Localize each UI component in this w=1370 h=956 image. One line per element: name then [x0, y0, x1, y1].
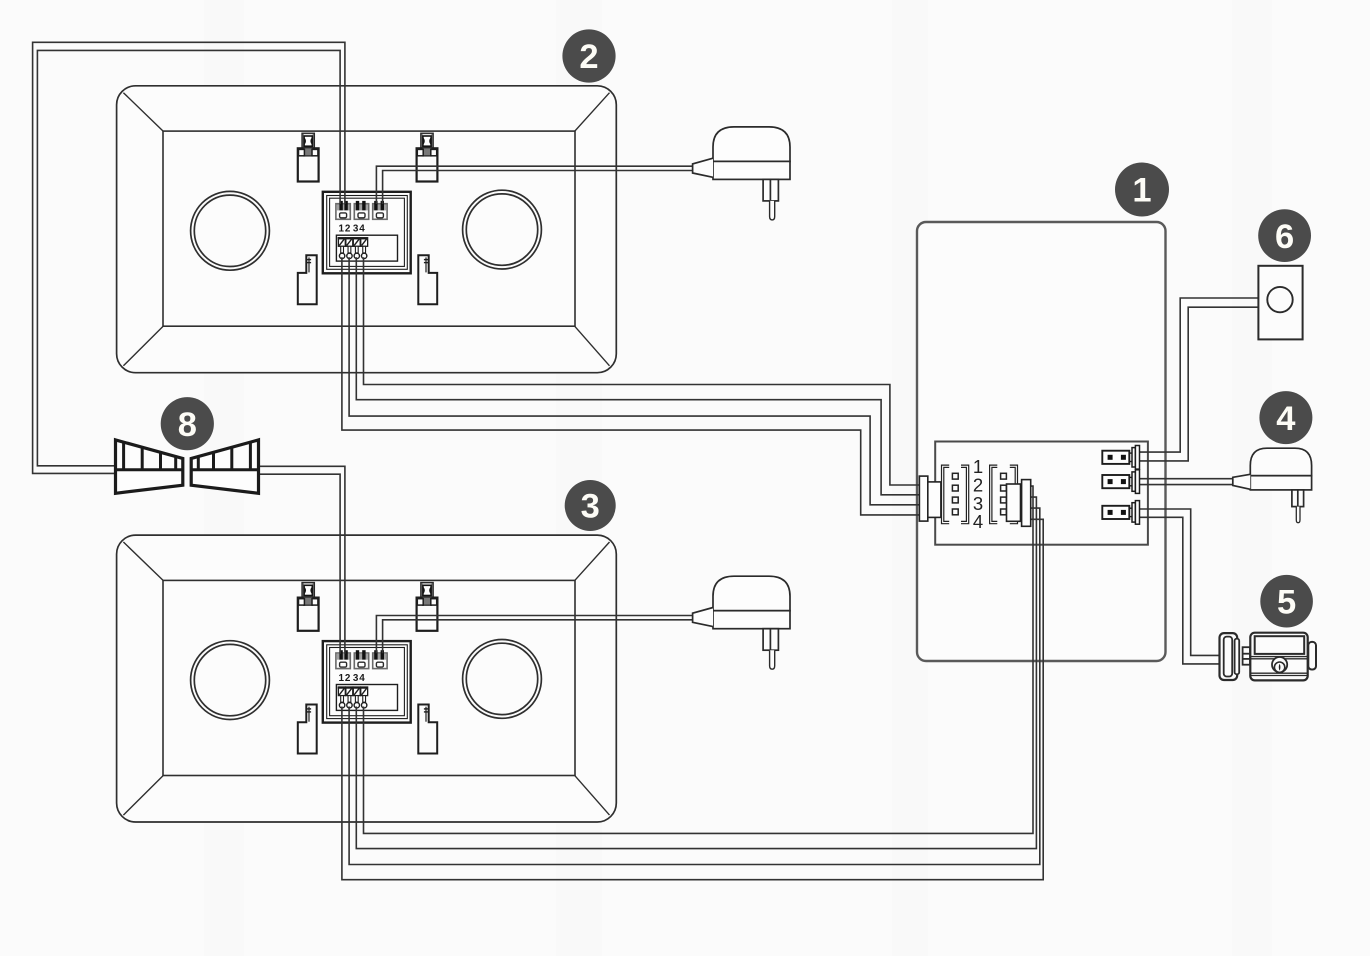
monitor 3: power adapter body — [693, 576, 790, 669]
monitor 2: socket 3 — [373, 201, 387, 219]
monitor 2: right speaker circle — [463, 190, 542, 269]
svg-text:3: 3 — [581, 488, 600, 526]
connector J2 pins — [1001, 473, 1007, 515]
door station terminal panel — [935, 442, 1148, 545]
monitor 3: screw terminal 2 — [345, 687, 353, 708]
monitor 3: terminal strip — [336, 685, 397, 711]
wire: door station to adapter 4 — [1140, 479, 1233, 485]
monitor 2: wire socket3 to adapter — [376, 166, 692, 204]
connector J1 plug flange — [919, 476, 927, 521]
wire: monitor3 terminal 2 to door station — [349, 508, 1040, 864]
wire: monitor2 terminal 3 to door station — [356, 257, 920, 495]
monitor 2: mounting keyhole bottom-right — [418, 255, 437, 304]
item badge 2 — [562, 29, 615, 82]
monitor 2: screw terminal 1 — [338, 237, 346, 258]
monitor 3: socket 2 — [354, 650, 368, 668]
monitor 3: socket 3 — [373, 650, 387, 668]
monitor 2: inner panel — [163, 131, 575, 326]
monitor 3: inner panel — [163, 580, 575, 775]
monitor 3: mounting keyhole top-left — [298, 583, 319, 631]
monitor 2: mounting keyhole bottom-left — [298, 255, 317, 304]
wire: door station to electric lock (lower) — [1140, 517, 1221, 664]
svg-text:5: 5 — [1277, 583, 1296, 621]
connector J2 right bracket — [1010, 465, 1018, 524]
monitor 2: connector block body — [323, 192, 411, 273]
connector J2 plug flange — [1022, 480, 1031, 527]
monitor 2: mounting keyhole top-left — [298, 133, 319, 181]
svg-text:4: 4 — [359, 224, 365, 235]
splitter item 8 left half — [116, 440, 183, 493]
splitter item 8 right half — [191, 440, 258, 493]
wire: door station to doorbell button (lower) — [1140, 307, 1259, 461]
monitor 3: left speaker circle — [191, 641, 270, 720]
monitor 2: adapter plug — [763, 179, 778, 201]
monitor 2: frame bevel corners — [123, 93, 609, 366]
electric lock item 5 link block — [1243, 647, 1250, 665]
monitor 3: mounting keyhole top-right — [417, 583, 438, 631]
wire: splitter to monitor3 socket1 (outer) — [259, 466, 345, 654]
monitor 2: label 1 2 3 4 — [338, 224, 365, 235]
connector J1 plug body — [928, 482, 941, 518]
wire: monitor2 socket1 loop to splitter (outer) — [33, 42, 345, 473]
monitor 2: terminal strip — [336, 235, 397, 261]
labels 1-4 of door station terminals — [973, 456, 983, 532]
2-pin connector top — [1102, 446, 1139, 470]
svg-text:4: 4 — [973, 511, 983, 532]
connector J1 pins — [952, 473, 958, 515]
connector J2 left bracket — [990, 465, 998, 524]
wire: door station to electric lock (upper) — [1140, 509, 1221, 655]
monitor 2: screw terminal 3 — [353, 237, 361, 258]
svg-text:2: 2 — [345, 224, 351, 235]
svg-text:3: 3 — [353, 224, 359, 235]
svg-text:6: 6 — [1275, 218, 1294, 256]
item badge 6 — [1258, 209, 1311, 262]
svg-text:4: 4 — [359, 673, 365, 684]
svg-text:1: 1 — [1132, 172, 1151, 210]
svg-text:8: 8 — [178, 406, 197, 444]
monitor 2: adapter pin — [770, 201, 775, 220]
monitor 3: connector block body — [323, 641, 411, 723]
wire: door station to doorbell button (upper) — [1140, 298, 1259, 452]
power adapter item 4 — [1233, 448, 1312, 523]
wire: monitor3 terminal 3 to door station — [356, 497, 1036, 848]
svg-text:3: 3 — [353, 673, 359, 684]
wire: monitor3 terminal 4 to door station — [364, 486, 1034, 833]
monitor 2: wall frame — [117, 86, 617, 373]
connector J2 plug body — [1007, 484, 1021, 521]
2-pin connector bottom — [1102, 501, 1139, 525]
monitor 2: screw terminal 4 — [360, 237, 368, 258]
monitor 2: adapter cable strain relief — [693, 158, 713, 177]
monitor 3: adapter pin — [770, 650, 775, 669]
monitor 2: power adapter body — [693, 127, 790, 220]
item badge 1 — [1115, 163, 1169, 217]
connector J1 left bracket — [942, 465, 950, 524]
item badge 3 — [565, 480, 616, 531]
monitor 3: mounting keyhole bottom-left — [298, 705, 317, 754]
monitor 3: frame bevel corners — [123, 542, 609, 815]
item badge 4 — [1259, 391, 1312, 444]
monitor 2: socket 2 — [354, 201, 368, 219]
electric lock item 5 strike plate — [1220, 633, 1240, 680]
monitor 3: adapter plug — [763, 629, 778, 651]
wire: monitor2 socket1 loop to splitter (inner) — [37, 50, 340, 465]
svg-text:1: 1 — [338, 673, 344, 684]
door station box U1 — [917, 222, 1166, 661]
monitor 3: adapter cable strain relief — [693, 608, 713, 627]
monitor 3: mounting keyhole bottom-right — [418, 705, 437, 754]
wire: monitor2 terminal 4 to door station — [364, 257, 921, 485]
wire: splitter to monitor3 socket1 (inner) — [259, 474, 340, 654]
2-pin connector middle — [1102, 470, 1139, 494]
monitor 3: right speaker circle — [463, 640, 542, 719]
svg-text:2: 2 — [345, 673, 351, 684]
svg-text:2: 2 — [579, 38, 598, 76]
monitor 2: socket 1 — [336, 201, 350, 219]
electric lock item 5 body — [1250, 633, 1316, 681]
wire: monitor2 terminal 1 to door station — [342, 257, 921, 515]
monitor 3: socket 1 — [336, 650, 350, 668]
monitor 3: label 1 2 3 4 — [338, 673, 365, 684]
wire: monitor2 terminal 2 to door station — [349, 257, 920, 505]
svg-text:1: 1 — [338, 224, 344, 235]
item badge 5 — [1260, 575, 1313, 628]
monitor 2: screw terminal 2 — [345, 237, 353, 258]
svg-text:4: 4 — [1276, 400, 1295, 438]
item badge 8 — [161, 397, 214, 450]
monitor 2: left speaker circle — [191, 191, 270, 270]
doorbell button item 6 — [1258, 266, 1302, 340]
monitor 3: screw terminal 4 — [360, 687, 368, 708]
monitor 3: wall frame — [117, 535, 617, 822]
monitor 3: screw terminal 1 — [338, 687, 346, 708]
wire: monitor3 terminal 1 to door station — [342, 519, 1043, 879]
monitor 2: mounting keyhole top-right — [417, 133, 438, 181]
monitor 3: wire socket3 to adapter — [376, 616, 692, 654]
monitor 3: screw terminal 3 — [353, 687, 361, 708]
connector J1 right bracket — [961, 465, 969, 524]
